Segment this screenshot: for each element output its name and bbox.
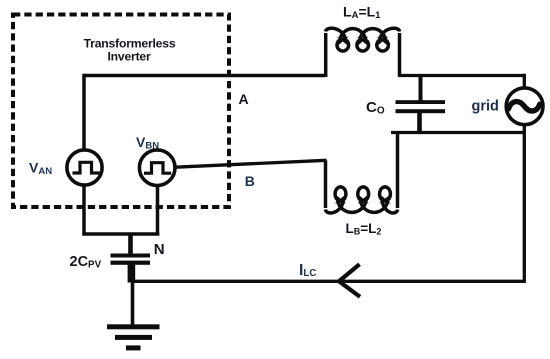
wire: node A horizontal from V_AN branch to inductor LA: [84, 74, 325, 78]
svg-text:B: B: [245, 173, 255, 189]
source V_AN (pulse voltage source): [67, 150, 102, 185]
label 2C_PV: [70, 254, 102, 271]
capacitor 2C_PV plates: [111, 254, 151, 265]
wire: stub from top wire down to capacitor C_O: [419, 76, 423, 102]
svg-text:CO: CO: [366, 99, 385, 117]
label V_AN: [29, 160, 52, 178]
wire: grid top stub: [523, 74, 526, 89]
wire: vertical from junction down to ground: [131, 281, 135, 325]
svg-text:ILC: ILC: [299, 262, 316, 279]
wire: thick stub from capacitor down to return-wire junction: [128, 265, 136, 283]
node N label: [154, 241, 165, 258]
ground symbol: [107, 324, 160, 350]
wire: horizontal connector joining both sources at node N: [82, 232, 159, 236]
label V_BN: [136, 134, 159, 152]
current arrow I_LC pointing left: [339, 264, 360, 297]
wire: stub from C_O bottom plate to middle wire: [417, 113, 422, 133]
source V_BN (pulse voltage source): [139, 150, 175, 186]
wire: right vertical from grid down to return wire: [523, 124, 526, 281]
svg-text:LA=L1: LA=L1: [343, 4, 381, 22]
inductor LA coil: [326, 28, 400, 77]
grid AC source: [506, 88, 543, 125]
capacitor C_O plates: [396, 100, 446, 113]
node B label: [245, 173, 255, 189]
svg-text:2CPV: 2CPV: [70, 254, 102, 271]
wire: below V_AN down to N connector: [82, 185, 86, 236]
node A label: [239, 91, 249, 107]
svg-text:Transformerless: Transformerless: [84, 37, 176, 51]
wire: stub from N connector down to capacitor 2C_PV: [128, 234, 133, 254]
svg-text:VAN: VAN: [29, 160, 52, 178]
label LA = L1: [343, 4, 381, 22]
label grid: [472, 98, 499, 114]
svg-text:grid: grid: [472, 98, 499, 114]
label: Transformerless Inverter: [84, 37, 176, 64]
wire: below V_BN down to N connector: [156, 186, 160, 236]
wire: node B slanted from V_BN to inductor LB: [176, 160, 327, 167]
label I_LC: [299, 262, 316, 279]
wire: top horizontal from LA to grid branch: [400, 74, 526, 77]
inductor LB coil: [326, 134, 398, 213]
svg-text:A: A: [239, 91, 249, 107]
svg-text:VBN: VBN: [136, 134, 159, 152]
dashed boundary box of transformerless inverter: [13, 15, 229, 208]
wire: I_LC return wire from junction to grid branch: [131, 280, 526, 283]
label LB = L2: [346, 221, 382, 237]
svg-text:Inverter: Inverter: [107, 50, 151, 64]
label C_O: [366, 99, 385, 117]
svg-text:LB=L2: LB=L2: [346, 221, 382, 237]
svg-text:N: N: [154, 241, 165, 258]
wire: vertical from node-A wire down to V_AN source: [82, 74, 86, 151]
wire: middle horizontal from LB riser to grid bottom: [391, 131, 524, 134]
